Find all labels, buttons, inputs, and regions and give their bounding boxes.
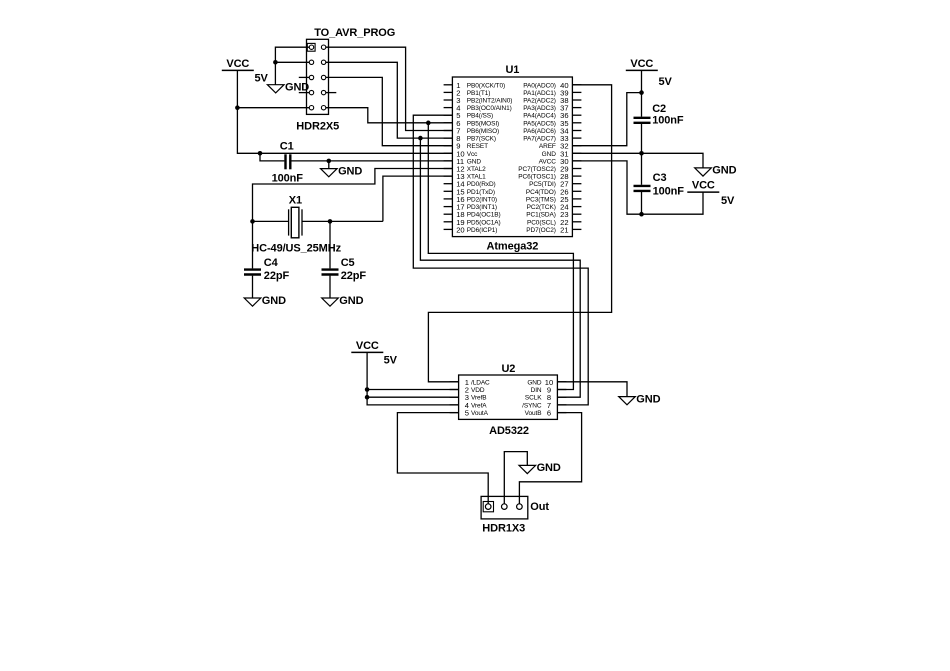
svg-text:GND: GND xyxy=(712,165,736,177)
svg-text:C3: C3 xyxy=(653,172,667,184)
wire RESET: HDR2X5 pin 6 to U1 pin 9 xyxy=(326,77,453,145)
wire C1 right plate to U1 GND pin 11 xyxy=(291,160,452,162)
wire VCC rail to HDR2X5 pin9 and U1 pin10 xyxy=(237,70,452,153)
svg-text:6: 6 xyxy=(547,409,551,418)
svg-text:5V: 5V xyxy=(384,355,398,367)
svg-text:VCC: VCC xyxy=(692,180,715,192)
svg-text:PA2(ADC2): PA2(ADC2) xyxy=(523,98,556,105)
svg-text:VCC: VCC xyxy=(630,58,653,70)
svg-text:VrefB: VrefB xyxy=(471,395,487,402)
svg-text:GND: GND xyxy=(338,165,362,177)
wire crystal left node xyxy=(250,219,288,224)
svg-text:PA1(ADC1): PA1(ADC1) xyxy=(523,90,556,97)
svg-text:VoutB: VoutB xyxy=(525,410,542,417)
svg-text:PB2(INT2/AIN0): PB2(INT2/AIN0) xyxy=(467,98,513,105)
svg-text:100nF: 100nF xyxy=(272,173,304,185)
svg-text:Atmega32: Atmega32 xyxy=(487,241,539,253)
svg-text:PC5(TDI): PC5(TDI) xyxy=(529,181,556,188)
svg-text:Out: Out xyxy=(530,501,549,513)
svg-text:5V: 5V xyxy=(721,195,735,207)
wire MISO: HDR2X5 pin 2 to U1 PB6 xyxy=(326,47,453,130)
ground GND (HDR1X3) xyxy=(519,462,561,474)
svg-text:20: 20 xyxy=(456,225,464,234)
svg-text:X1: X1 xyxy=(289,195,302,207)
svg-text:PB5(MOSI): PB5(MOSI) xyxy=(467,120,499,127)
svg-text:SCLK: SCLK xyxy=(525,395,542,402)
power VCC 5V (top left) xyxy=(222,58,269,85)
svg-text:TO_AVR_PROG: TO_AVR_PROG xyxy=(314,27,395,39)
wire AREF to VCC xyxy=(572,90,643,145)
svg-text:5V: 5V xyxy=(659,76,673,88)
svg-text:U2: U2 xyxy=(501,363,515,375)
svg-text:GND: GND xyxy=(339,295,363,307)
svg-text:PB7(SCK): PB7(SCK) xyxy=(467,136,496,143)
svg-text:XTAL1: XTAL1 xyxy=(467,174,486,181)
svg-text:GND: GND xyxy=(262,295,286,307)
svg-text:PD7(OC2): PD7(OC2) xyxy=(526,227,556,234)
svg-text:PB4(/SS): PB4(/SS) xyxy=(467,113,493,120)
ground GND (right of C3) xyxy=(695,165,737,177)
svg-text:PC2(TCK): PC2(TCK) xyxy=(527,204,556,211)
wire HDR1X3 pin 2 to ground xyxy=(504,452,527,504)
svg-text:100nF: 100nF xyxy=(652,115,684,127)
node junction C1/VCC xyxy=(258,151,263,156)
wire GND net: U1 pin 31 to ground xyxy=(572,151,703,168)
svg-text:C2: C2 xyxy=(652,103,666,115)
svg-text:PA3(ADC3): PA3(ADC3) xyxy=(523,105,556,112)
pin stub HDR2X5 pin 5 xyxy=(299,76,310,78)
svg-text:AREF: AREF xyxy=(539,143,556,150)
pin stub HDR2X5 pin 8 xyxy=(326,92,337,94)
svg-text:C4: C4 xyxy=(264,257,279,269)
svg-text:PA4(ADC4): PA4(ADC4) xyxy=(523,113,556,120)
svg-text:5V: 5V xyxy=(255,73,269,85)
svg-text:PC0(SCL): PC0(SCL) xyxy=(527,219,556,226)
svg-text:VrefA: VrefA xyxy=(471,402,487,409)
svg-text:GND: GND xyxy=(636,393,660,405)
wire VoutB: U2 pin 6 to HDR1X3 pin 3 xyxy=(519,413,581,504)
svg-text:HDR1X3: HDR1X3 xyxy=(482,523,525,535)
ground GND (C4) xyxy=(244,295,286,307)
IC U1 Atmega32 xyxy=(444,64,582,253)
svg-text:PD0(RxD): PD0(RxD) xyxy=(467,181,496,188)
svg-text:PA7(ADC7): PA7(ADC7) xyxy=(523,136,556,143)
wire VCC to U2 VDD/VrefB/VrefA xyxy=(365,352,459,405)
wire MOSI to U2 DIN xyxy=(426,121,573,390)
svg-text:VCC: VCC xyxy=(226,58,249,70)
svg-text:/SYNC: /SYNC xyxy=(522,402,542,409)
connector J1 HDR2X5 TO_AVR_PROG xyxy=(296,27,395,132)
svg-text:PC6(TOSC1): PC6(TOSC1) xyxy=(518,174,556,181)
IC U2 AD5322 xyxy=(450,363,567,437)
svg-text:PB1(T1): PB1(T1) xyxy=(467,90,491,97)
svg-text:Vcc: Vcc xyxy=(467,151,478,158)
svg-text:VCC: VCC xyxy=(356,340,379,352)
svg-text:PD5(OC1A): PD5(OC1A) xyxy=(467,219,501,226)
capacitor C5 22pF xyxy=(322,221,367,298)
svg-text:PA5(ADC5): PA5(ADC5) xyxy=(523,120,556,127)
capacitor C3 100nF xyxy=(634,153,685,214)
svg-text:PB0(XCK/T0): PB0(XCK/T0) xyxy=(467,82,505,89)
svg-text:HDR2X5: HDR2X5 xyxy=(296,120,339,132)
wire SCK to U2 SCLK xyxy=(418,136,580,397)
svg-text:U1: U1 xyxy=(505,64,519,76)
wire AVCC: U1 pin 30 to VCC via C3 xyxy=(572,161,703,217)
power VCC 5V (AVCC) xyxy=(687,180,735,207)
wire VoutA: U2 pin 5 to HDR1X3 pin 1 xyxy=(397,413,488,504)
ground GND (below HDR2X5 pins 1,3) xyxy=(267,82,309,94)
svg-text:GND: GND xyxy=(537,462,561,474)
svg-text:5: 5 xyxy=(465,409,469,418)
svg-text:PB6(MISO): PB6(MISO) xyxy=(467,128,499,135)
ground GND (C1) xyxy=(321,159,363,178)
svg-text:PC7(TOSC2): PC7(TOSC2) xyxy=(518,166,556,173)
svg-text:PD1(TxD): PD1(TxD) xyxy=(467,189,495,196)
svg-text:PD4(OC1B): PD4(OC1B) xyxy=(467,212,501,219)
wire C1 left plate to VCC rail xyxy=(260,153,284,161)
svg-text:GND: GND xyxy=(527,379,542,386)
svg-text:AVCC: AVCC xyxy=(539,158,557,165)
pin stub HDR2X5 pin 7 xyxy=(299,92,310,94)
svg-text:/LDAC: /LDAC xyxy=(471,379,490,386)
svg-text:AD5322: AD5322 xyxy=(489,425,529,437)
capacitor C1 100nF xyxy=(272,140,304,184)
wire MOSI: HDR2X5 pin 10 to U1 PB5 xyxy=(326,108,453,123)
wire XTAL2: U1 pin 12 to crystal left node xyxy=(253,169,453,222)
capacitor C2 100nF xyxy=(634,70,684,153)
svg-text:PC1(SDA): PC1(SDA) xyxy=(526,212,556,219)
power VCC 5V (U2 supply) xyxy=(351,340,397,367)
svg-text:21: 21 xyxy=(560,225,568,234)
svg-text:GND: GND xyxy=(542,151,557,158)
crystal X1 HC-49/US_25MHz xyxy=(251,195,341,255)
svg-text:DIN: DIN xyxy=(531,387,542,394)
svg-text:PB3(OC0/AIN1): PB3(OC0/AIN1) xyxy=(467,105,512,112)
svg-text:PC4(TDO): PC4(TDO) xyxy=(526,189,556,196)
svg-text:PD6(ICP1): PD6(ICP1) xyxy=(467,227,498,234)
ground GND (U2) xyxy=(619,393,661,405)
svg-text:PA6(ADC6): PA6(ADC6) xyxy=(523,128,556,135)
wire crystal right node xyxy=(302,219,383,224)
svg-text:100nF: 100nF xyxy=(653,186,685,198)
svg-text:XTAL2: XTAL2 xyxy=(467,166,486,173)
svg-text:GND: GND xyxy=(285,82,309,94)
ground GND (C5) xyxy=(322,295,364,307)
svg-text:C1: C1 xyxy=(280,140,294,152)
wire HDR2X5 pins 1,3 to GND xyxy=(273,47,309,84)
wire PA0: U1 pin 40 to U2 /LDAC xyxy=(428,85,611,382)
svg-text:C5: C5 xyxy=(341,257,355,269)
svg-text:GND: GND xyxy=(467,158,482,165)
svg-text:PD2(INT0): PD2(INT0) xyxy=(467,196,497,203)
connector J2 HDR1X3 Out xyxy=(481,496,549,534)
power VCC 5V (top right) xyxy=(626,58,673,88)
svg-text:22pF: 22pF xyxy=(341,270,367,282)
wire XTAL1: U1 pin 13 to crystal right node xyxy=(383,176,453,221)
svg-text:VDD: VDD xyxy=(471,387,485,394)
wire U2 GND pin 10 to ground xyxy=(557,382,627,397)
capacitor C4 22pF xyxy=(244,221,289,298)
svg-text:RESET: RESET xyxy=(467,143,488,150)
svg-text:PC3(TMS): PC3(TMS) xyxy=(526,196,556,203)
svg-text:PD3(INT1): PD3(INT1) xyxy=(467,204,497,211)
svg-text:PA0(ADC0): PA0(ADC0) xyxy=(523,82,556,89)
svg-text:HC-49/US_25MHz: HC-49/US_25MHz xyxy=(251,242,341,254)
svg-text:22pF: 22pF xyxy=(264,270,290,282)
wire /SS: U1 PB4 to U2 /SYNC xyxy=(413,115,588,405)
wire SCK: HDR2X5 pin 4 to U1 PB7 xyxy=(326,62,453,138)
node junction VCC / HDR2X5 pin 9 xyxy=(235,105,309,110)
svg-text:VoutA: VoutA xyxy=(471,410,489,417)
